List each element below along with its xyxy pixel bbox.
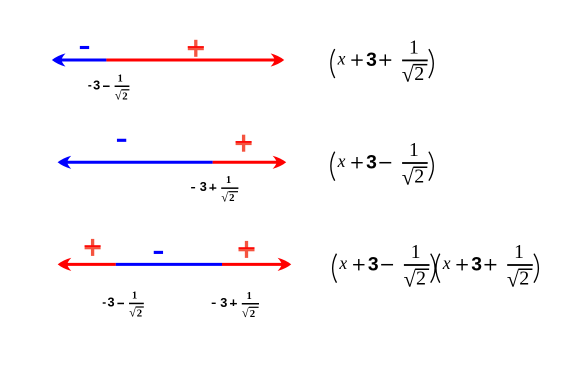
line 1 plus sign xyxy=(188,40,204,57)
svg-text:3: 3 xyxy=(471,255,482,276)
line 2 right arrowhead (red) xyxy=(273,156,287,169)
svg-text:3: 3 xyxy=(366,153,377,174)
svg-text:x: x xyxy=(337,48,346,68)
line 1 minus sign xyxy=(80,46,89,49)
line 2 minus sign xyxy=(117,139,126,142)
line 1 right arrowhead (red) xyxy=(271,53,285,66)
expression 3 factor 1: (x+3-1/sqrt2) xyxy=(333,242,435,291)
svg-text:3: 3 xyxy=(108,296,115,310)
line 3 right plus sign xyxy=(239,241,255,258)
svg-text:3: 3 xyxy=(220,296,227,310)
svg-text:1: 1 xyxy=(247,291,252,302)
svg-text:√: √ xyxy=(221,190,228,204)
svg-text:2: 2 xyxy=(519,268,529,290)
line 1 label -3-1/sqrt2 xyxy=(88,73,129,102)
line 3 right arrowhead (red) xyxy=(278,258,292,271)
line 2 label -3+1/sqrt2 xyxy=(191,175,238,204)
svg-text:2: 2 xyxy=(137,308,142,320)
line 3 left arrowhead (red) xyxy=(58,258,72,271)
svg-text:√: √ xyxy=(242,306,249,320)
svg-text:1: 1 xyxy=(411,242,421,263)
svg-text:√: √ xyxy=(129,306,136,320)
svg-text:3: 3 xyxy=(93,78,100,92)
svg-text:2: 2 xyxy=(122,90,127,102)
svg-text:3: 3 xyxy=(200,180,207,194)
svg-text:2: 2 xyxy=(414,63,424,85)
svg-text:1: 1 xyxy=(118,73,123,84)
svg-text:√: √ xyxy=(115,89,122,103)
line 3 left label -3-1/sqrt2 xyxy=(103,291,144,320)
number line 1: red positive segment xyxy=(106,59,278,62)
svg-text:√: √ xyxy=(404,266,417,291)
line 2 left arrowhead (blue) xyxy=(58,156,72,169)
svg-text:1: 1 xyxy=(514,242,524,263)
number line 1: blue negative segment xyxy=(58,59,106,62)
svg-text:1: 1 xyxy=(226,175,231,186)
svg-text:x: x xyxy=(442,253,451,273)
svg-text:3: 3 xyxy=(368,255,379,276)
number line 3: right red positive segment xyxy=(222,263,285,266)
svg-text:1: 1 xyxy=(409,37,419,58)
line 1 left arrowhead (blue) xyxy=(52,53,66,66)
svg-text:√: √ xyxy=(402,164,415,189)
svg-text:3: 3 xyxy=(366,50,377,71)
expression 2: (x+3-1/sqrt2) xyxy=(331,140,433,189)
svg-text:1: 1 xyxy=(409,140,419,161)
number line 2: red positive segment xyxy=(213,161,280,164)
expression 1: (x+3+1/sqrt2) xyxy=(331,37,433,86)
number line 2: blue negative segment xyxy=(64,161,213,164)
svg-text:x: x xyxy=(338,253,347,273)
line 2 plus sign xyxy=(236,135,252,152)
number line 3: left red positive segment xyxy=(64,263,116,266)
svg-text:2: 2 xyxy=(414,166,424,188)
line 3 minus sign xyxy=(154,251,163,254)
svg-text:2: 2 xyxy=(416,268,426,290)
svg-text:√: √ xyxy=(402,62,415,87)
expression 3 factor 2: (x+3+1/sqrt2) xyxy=(436,242,538,291)
line 3 left plus sign xyxy=(85,239,101,256)
number line 3: middle blue negative segment xyxy=(116,263,222,266)
svg-text:2: 2 xyxy=(250,308,255,320)
svg-text:2: 2 xyxy=(229,192,234,204)
line 3 right label -3+1/sqrt2 xyxy=(212,291,259,320)
svg-text:x: x xyxy=(337,151,346,171)
svg-text:1: 1 xyxy=(132,291,137,302)
svg-text:√: √ xyxy=(507,266,520,291)
